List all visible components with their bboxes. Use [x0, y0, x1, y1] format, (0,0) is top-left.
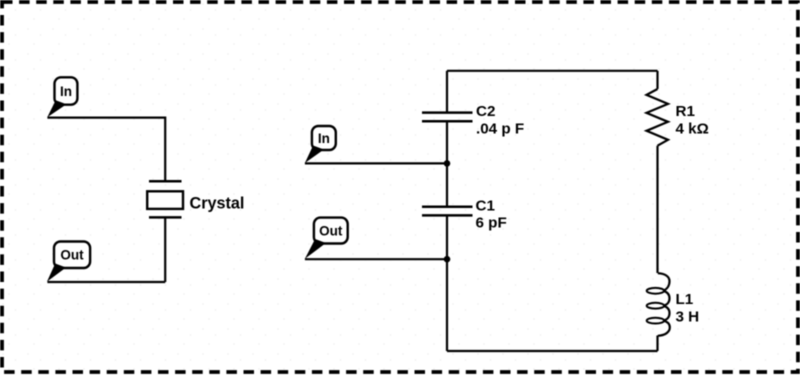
- svg-text:Out: Out: [60, 248, 84, 263]
- svg-text:L1: L1: [676, 291, 694, 308]
- svg-text:Crystal: Crystal: [190, 195, 245, 213]
- svg-text:C2: C2: [476, 103, 495, 120]
- svg-text:C1: C1: [476, 198, 496, 215]
- svg-text:Out: Out: [319, 223, 343, 238]
- svg-text:R1: R1: [676, 103, 696, 120]
- svg-text:6 pF: 6 pF: [476, 215, 507, 232]
- svg-text:In: In: [60, 84, 72, 99]
- svg-text:4 kΩ: 4 kΩ: [676, 121, 709, 138]
- svg-text:.04 p F: .04 p F: [476, 121, 524, 138]
- svg-text:In: In: [318, 131, 330, 146]
- svg-text:3 H: 3 H: [676, 309, 700, 326]
